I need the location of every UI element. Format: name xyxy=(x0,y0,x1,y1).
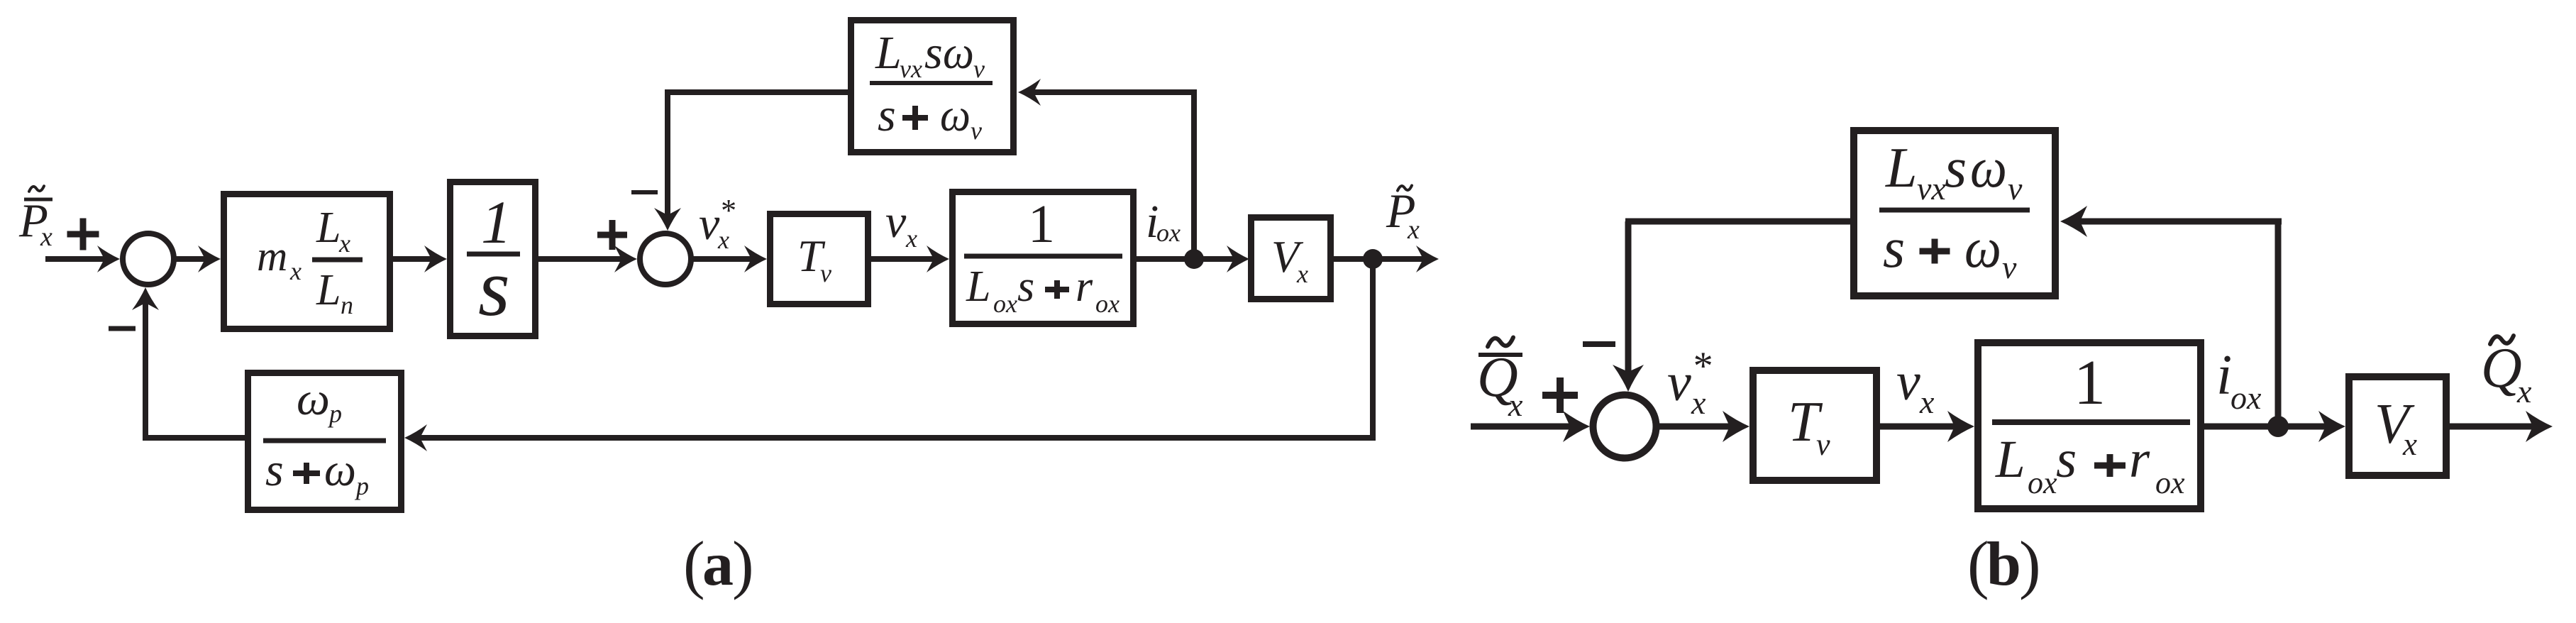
svg-text:v: v xyxy=(1896,352,1920,412)
wire plant to Vx (a) xyxy=(1137,246,1249,272)
label iox (a) xyxy=(1146,196,1181,248)
svg-text:vx: vx xyxy=(900,55,922,83)
svg-text:vx: vx xyxy=(1917,170,1946,206)
output label P-tilde x (a) xyxy=(1386,184,1420,245)
svg-text:ω: ω xyxy=(1964,217,2001,280)
feedback wire Lvx block to S3 (b) xyxy=(1613,221,1850,392)
svg-text:x: x xyxy=(717,226,729,254)
label vx (b) xyxy=(1896,352,1935,420)
junction node iox (a) xyxy=(1184,249,1204,269)
feedback wire Lvx block to S2 (a) xyxy=(654,92,848,231)
plus sign at summing junction S2 (a) xyxy=(597,220,627,250)
svg-text:r: r xyxy=(2129,430,2150,489)
minus sign at S3 (b) xyxy=(1583,341,1615,347)
feedback wire iox node to Lvx block (a) xyxy=(1018,79,1197,259)
wire integrator to S2 (a) xyxy=(538,246,637,272)
svg-text:L: L xyxy=(316,204,341,252)
junction node iox (b) xyxy=(2267,416,2289,437)
svg-text:ω: ω xyxy=(324,444,356,496)
svg-text:L: L xyxy=(316,266,341,314)
svg-text:v: v xyxy=(1667,353,1691,412)
svg-text:v: v xyxy=(1816,427,1830,462)
svg-text:b: b xyxy=(1986,530,2021,599)
svg-text:x: x xyxy=(40,222,52,252)
svg-text:s: s xyxy=(265,444,284,496)
block Tv (a) xyxy=(770,214,868,304)
svg-text:): ) xyxy=(2019,528,2041,600)
svg-text:v: v xyxy=(971,116,982,145)
svg-text:x: x xyxy=(1296,260,1308,288)
svg-text:s: s xyxy=(1883,217,1905,280)
svg-text:a: a xyxy=(702,530,734,599)
block Lvx·s·ωv/(s+ωv) (b) xyxy=(1854,131,2055,296)
svg-text:m: m xyxy=(257,233,287,280)
svg-text:s: s xyxy=(924,27,943,79)
svg-text:ω: ω xyxy=(943,27,974,79)
svg-text:v: v xyxy=(885,196,907,248)
block 1/(Lox·s+rox) (a) xyxy=(953,192,1134,324)
svg-text:1: 1 xyxy=(1028,194,1055,254)
svg-text:v: v xyxy=(699,198,720,250)
block Lvx·s·ωv/(s+ωv) (a) xyxy=(851,21,1014,153)
block G1 mx·Lx/Ln (a) xyxy=(224,194,390,329)
feedback wire iox node to Lvx block (b) xyxy=(2060,206,2282,426)
label vx* (a) xyxy=(699,193,735,254)
svg-text:Q: Q xyxy=(2481,337,2522,399)
svg-text:): ) xyxy=(732,528,754,600)
svg-text:x: x xyxy=(2402,426,2417,462)
svg-text:x: x xyxy=(1919,384,1935,420)
wire Vx to output (a) xyxy=(1334,246,1439,272)
svg-text:s: s xyxy=(1945,137,1967,199)
svg-text:ox: ox xyxy=(2028,465,2057,500)
minus sign at S2 (a) xyxy=(631,190,658,194)
svg-text:ox: ox xyxy=(1156,219,1181,247)
summing junction S3 (b) xyxy=(1593,395,1657,458)
svg-text:v: v xyxy=(973,55,985,83)
minus sign at S1 (a) xyxy=(109,326,136,331)
svg-text:ω: ω xyxy=(940,89,971,141)
svg-text:ox: ox xyxy=(2230,380,2262,416)
svg-text:v: v xyxy=(2008,170,2023,206)
wire input to S3 (b) xyxy=(1471,411,1590,442)
svg-text:s: s xyxy=(478,243,510,333)
svg-text:x: x xyxy=(1407,215,1420,245)
wire input to S1 (a) xyxy=(45,246,120,272)
svg-text:v: v xyxy=(820,259,831,287)
svg-text:ox: ox xyxy=(1095,290,1120,318)
block ωp/(s+ωp) (a) xyxy=(248,373,402,510)
svg-text:x: x xyxy=(1691,385,1706,421)
svg-text:ω: ω xyxy=(297,373,330,425)
wire S3 to Tv (b) xyxy=(1659,411,1749,442)
svg-text:*: * xyxy=(1691,344,1711,388)
svg-text:s: s xyxy=(878,89,896,141)
svg-text:ox: ox xyxy=(2155,465,2185,500)
svg-text:p: p xyxy=(354,472,369,500)
wire Tv to plant block (b) xyxy=(1880,411,1974,442)
plus sign at summing junction S3 (b) xyxy=(1542,377,1578,413)
block integrator 1/s (a) xyxy=(450,182,536,336)
svg-text:v: v xyxy=(2002,249,2017,285)
svg-text:s: s xyxy=(1017,263,1034,311)
block Tv (b) xyxy=(1753,370,1876,480)
svg-text:i: i xyxy=(2216,344,2232,407)
wire G1 to integrator (a) xyxy=(393,246,447,272)
block 1/(Lox·s+rox) (b) xyxy=(1978,343,2201,509)
wire plant to Vx (b) xyxy=(2204,411,2345,442)
svg-text:n: n xyxy=(341,291,353,319)
svg-text:*: * xyxy=(719,193,735,228)
label vx* (b) xyxy=(1667,344,1711,421)
svg-text:p: p xyxy=(327,399,342,428)
svg-text:x: x xyxy=(2516,373,2532,409)
caption (a) xyxy=(683,528,754,600)
label vx (a) xyxy=(885,196,917,253)
svg-text:x: x xyxy=(905,224,917,253)
summing junction S1 (a) xyxy=(123,233,174,285)
svg-text:x: x xyxy=(289,257,302,285)
svg-text:L: L xyxy=(966,263,990,311)
wire Tv to plant block (a) xyxy=(871,246,949,272)
junction node Px (a) xyxy=(1363,249,1383,269)
svg-text:r: r xyxy=(1076,263,1093,311)
block Vx (a) xyxy=(1251,218,1331,299)
svg-text:L: L xyxy=(1885,137,1918,199)
wire S1 to block G1 (a) xyxy=(174,246,221,272)
svg-text:L: L xyxy=(1995,430,2025,489)
svg-text:ω: ω xyxy=(1970,137,2007,199)
feedback wire Px node to ωp block (a) xyxy=(404,259,1376,451)
label iox (b) xyxy=(2216,344,2262,416)
wire Vx to output (b) xyxy=(2450,411,2553,442)
input label Q-tilde-bar x (b) xyxy=(1477,338,1523,423)
feedback wire ωp block to S1 (a) xyxy=(132,287,245,441)
svg-text:x: x xyxy=(1508,387,1523,423)
svg-text:L: L xyxy=(875,27,902,79)
output label Q-tilde x (b) xyxy=(2481,336,2532,409)
block Vx (b) xyxy=(2349,377,2446,475)
svg-text:ox: ox xyxy=(993,290,1017,318)
svg-text:x: x xyxy=(338,229,350,258)
svg-text:1: 1 xyxy=(2074,348,2106,418)
caption (b) xyxy=(1967,528,2041,600)
wire S2 to Tv (a) xyxy=(691,246,767,272)
summing junction S2 (a) xyxy=(640,233,691,285)
input label P-tilde-bar x (a) xyxy=(18,186,52,252)
svg-text:s: s xyxy=(2056,430,2077,489)
plus sign at summing junction S1 (a) xyxy=(67,219,99,250)
